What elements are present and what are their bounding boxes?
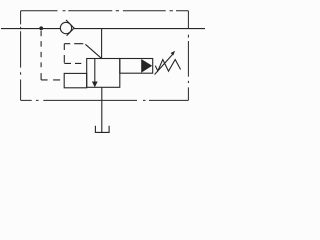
check valve CV1 seat <box>66 20 74 36</box>
spring (adjustable) <box>155 60 180 72</box>
main line left segment (port 2) <box>1 28 61 30</box>
pilot dashed box bottom <box>64 62 81 64</box>
enclosure right edge (dash-dot) <box>187 11 189 101</box>
tank symbol <box>95 126 109 133</box>
main line right segment (port 1) <box>74 28 205 30</box>
wire drain drop <box>101 87 103 132</box>
valve V1 main envelope <box>87 59 120 88</box>
pilot dashed box top <box>64 43 83 45</box>
pilot-assist triangle <box>141 59 152 73</box>
check valve CV1 ball <box>60 22 71 33</box>
enclosure top edge (dash-dot) <box>21 10 189 12</box>
pilot dashed line horizontal <box>41 79 60 81</box>
pilot dashed line vertical <box>40 31 42 80</box>
wire supply drop to valve <box>101 29 103 59</box>
valve V1 pilot-assist chamber <box>120 59 153 74</box>
enclosure left edge (dash-dot) <box>20 11 22 101</box>
enclosure bottom edge (dash-dot) <box>21 99 189 101</box>
spring adjustment arrow <box>155 54 173 75</box>
valve V1 flow arrow <box>94 59 96 82</box>
node junction dot <box>39 26 43 30</box>
pilot piston box <box>64 73 87 87</box>
pilot dashed box left <box>63 44 65 63</box>
pilot connection diagonal <box>85 44 101 58</box>
